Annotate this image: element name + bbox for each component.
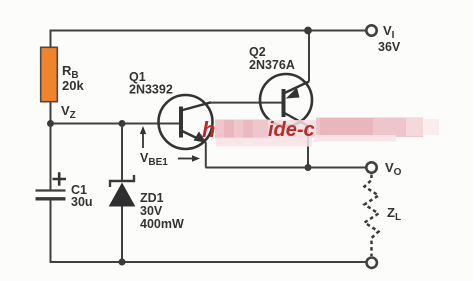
zener diode ZD1	[110, 175, 134, 187]
wire Q2 emitter to top rail	[308, 31, 310, 82]
svg-text:ZL: ZL	[387, 205, 401, 223]
node V_O line junction	[305, 164, 312, 171]
svg-text:ZD1: ZD1	[140, 191, 164, 205]
wire top rail	[51, 31, 367, 102]
svg-text:30u: 30u	[71, 195, 93, 209]
svg-text:VBE1: VBE1	[140, 151, 168, 168]
label + C1 30u	[53, 172, 67, 186]
resistor R_B	[41, 47, 58, 101]
node ZD1 top junction	[119, 120, 126, 127]
wire V_O horizontal	[206, 167, 366, 169]
transistor Q1	[159, 95, 213, 149]
svg-text:400mW: 400mW	[140, 217, 184, 231]
watermark	[202, 117, 439, 147]
node ZD1 bottom junction	[119, 259, 126, 266]
svg-text:20k: 20k	[62, 78, 84, 93]
node V_Z	[47, 120, 54, 127]
svg-text:ide-c: ide-c	[268, 119, 315, 141]
wire Q1 emitter down	[205, 143, 207, 168]
terminal V_O	[366, 162, 376, 172]
wire Q2 collector down	[307, 126, 309, 168]
svg-text:30V: 30V	[140, 204, 163, 218]
svg-text:36V: 36V	[378, 40, 401, 54]
svg-text:2N376A: 2N376A	[249, 58, 295, 72]
wire zener branch	[121, 124, 123, 263]
terminal bottom	[367, 258, 377, 268]
wire V_Z horizontal to Q1 base	[51, 123, 182, 125]
wire Q1 collector to Q2 base	[209, 102, 284, 104]
load Z_L dashed zigzag	[365, 175, 379, 257]
terminal V_I	[366, 25, 376, 35]
wire R_B to V_Z node	[50, 102, 52, 124]
wire capacitor branch	[51, 124, 372, 263]
svg-text:VI: VI	[383, 23, 395, 41]
svg-text:2N3392: 2N3392	[129, 83, 173, 97]
svg-text:h: h	[202, 117, 215, 142]
transistor Q2	[260, 74, 312, 126]
svg-text:VO: VO	[385, 160, 402, 178]
node top rail junction	[304, 27, 312, 35]
svg-text:VZ: VZ	[61, 103, 76, 121]
svg-text:Q2: Q2	[249, 45, 266, 59]
capacitor C1	[36, 189, 66, 191]
arrow V_BE1 up	[142, 131, 144, 148]
arrow V_BE1 right	[178, 158, 194, 160]
